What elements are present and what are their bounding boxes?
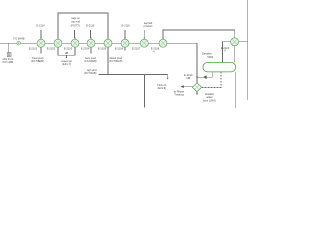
svg-text:(F0777): (F0777) xyxy=(71,23,80,27)
wire mixer outlet to phase treating xyxy=(183,86,192,88)
svg-text:E-2115: E-2115 xyxy=(86,23,95,27)
wire stub below E-2101 xyxy=(40,47,42,53)
wire right border line xyxy=(247,0,249,100)
svg-text:E-2106: E-2106 xyxy=(115,47,124,51)
svg-text:Treating: Treating xyxy=(174,92,184,96)
wire bracket below E-2102 and E-2103 xyxy=(58,47,75,55)
svg-text:HB: HB xyxy=(65,51,69,55)
heat exchanger E-2102 xyxy=(54,39,62,47)
wire stub below E-2104 xyxy=(90,47,92,53)
svg-text:E-2105: E-2105 xyxy=(98,47,107,51)
svg-text:(E21-7): (E21-7) xyxy=(62,62,71,66)
svg-text:5090: 5090 xyxy=(207,55,213,59)
svg-text:E-2107: E-2107 xyxy=(132,47,141,51)
svg-text:(FC?/6HB): (FC?/6HB) xyxy=(84,71,97,75)
svg-text:E-2101: E-2101 xyxy=(29,47,38,51)
wire vessel bottom drain right xyxy=(235,72,237,108)
wire main crude line xyxy=(0,42,197,44)
wire top overhead branch E-2108 to E-2124 xyxy=(163,30,235,39)
svg-text:top end: top end xyxy=(71,19,80,23)
svg-text:product: product xyxy=(144,24,153,28)
mixer diamond xyxy=(192,83,201,92)
wire feed stub above E-2101 xyxy=(40,30,42,38)
valve FG-5HAB xyxy=(17,41,21,45)
svg-text:FG 5HAB: FG 5HAB xyxy=(13,36,24,40)
junction dot xyxy=(196,76,197,77)
wire long drop below E-2105 xyxy=(107,47,109,74)
wire drop to flow-on label xyxy=(167,74,169,78)
wire left feed drop xyxy=(8,43,10,53)
wire feed stub above E-2107 xyxy=(143,30,145,38)
wire feed stub above E-2103 xyxy=(74,30,76,38)
wire feed stub above E-2104 xyxy=(90,30,92,38)
svg-text:E-2103: E-2103 xyxy=(64,47,73,51)
heat exchanger E-2106 xyxy=(121,39,129,47)
svg-text:E-2116: E-2116 xyxy=(122,23,131,27)
svg-text:E-2114: E-2114 xyxy=(36,23,45,27)
wire E-2124 left stub down to vessel xyxy=(223,42,231,63)
heat exchanger E-2103 xyxy=(71,39,79,47)
wire dashed water recycle xyxy=(202,72,221,87)
heat exchanger E-2101 xyxy=(37,39,45,47)
wire stub below E-2106 xyxy=(124,47,126,50)
svg-text:(FCT/BHB): (FCT/BHB) xyxy=(31,59,44,63)
svg-text:from (LRO): from (LRO) xyxy=(203,98,216,102)
svg-text:Desalter: Desalter xyxy=(202,51,212,55)
svg-text:HB: HB xyxy=(186,76,190,80)
wire corner down to mixer xyxy=(196,43,198,83)
wire top recycle box E-2102 to E-2105 xyxy=(58,13,108,43)
wire bottom header line xyxy=(98,73,167,75)
wire E-2124 right stub xyxy=(239,41,248,43)
svg-text:(E21-9): (E21-9) xyxy=(157,86,166,90)
svg-text:E-2104: E-2104 xyxy=(81,47,90,51)
heat exchanger E-2107 xyxy=(140,39,148,47)
wire vessel underdrain to mixer riser xyxy=(197,72,212,77)
heat exchanger E-2105 xyxy=(104,39,112,47)
desalter vessel 5090 xyxy=(203,62,236,72)
wire feed stub above E-2106 xyxy=(124,30,126,38)
offpage connector square ship from xyxy=(7,53,11,57)
wire E-2124 bottom stub to vessel xyxy=(234,46,236,63)
wire drop at x144 xyxy=(144,74,146,107)
svg-text:(FCT/6HW): (FCT/6HW) xyxy=(109,59,122,63)
svg-text:FCI HAB: FCI HAB xyxy=(3,60,14,64)
pump E-2124 xyxy=(231,38,239,46)
svg-text:E-2102: E-2102 xyxy=(47,47,56,51)
heat exchanger E-2104 xyxy=(87,39,95,47)
svg-text:(FCC6HB): (FCC6HB) xyxy=(84,59,96,63)
wire mixer bottom stub xyxy=(196,92,198,94)
heat exchanger E-2108 xyxy=(159,39,167,47)
